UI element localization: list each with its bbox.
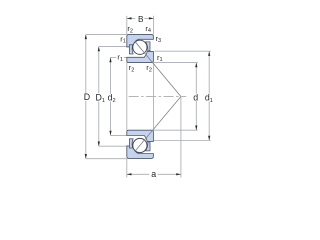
D bottom extension [86, 158, 127, 160]
d2 arrows [109, 58, 111, 63]
d1 arrows [208, 51, 210, 56]
a right extension (from apex) [180, 97, 182, 177]
d top extension [154, 62, 198, 64]
B dimension line [127, 17, 135, 19]
D top extension [86, 33, 127, 35]
svg-text:r2: r2 [127, 24, 133, 34]
svg-text:d2: d2 [108, 93, 116, 105]
face line right (bore cylinder edge) [153, 63, 155, 131]
B arrows [127, 17, 132, 19]
svg-text:r1: r1 [157, 53, 163, 63]
D1 arrows [98, 47, 100, 52]
svg-text:r3: r3 [156, 34, 162, 44]
d1 top extension [154, 50, 210, 52]
B extension left [126, 16, 128, 35]
svg-text:D1: D1 [96, 92, 105, 104]
D1 dimension line [98, 47, 100, 94]
svg-text:d1: d1 [205, 93, 213, 105]
a arrows [127, 173, 132, 175]
d2 top extension (broken by r1 label) [110, 57, 116, 59]
D1 top extension [99, 46, 127, 48]
D arrows [85, 34, 87, 39]
a dimension line [127, 173, 149, 175]
d1 bottom extension [154, 140, 211, 142]
D1 bottom extension [99, 145, 127, 147]
svg-text:d: d [193, 92, 198, 102]
D dimension line [85, 35, 87, 94]
svg-text:r2: r2 [146, 63, 152, 73]
svg-text:D: D [84, 92, 90, 102]
contact line lower (apex to lower ball) [135, 97, 181, 151]
d arrows [195, 63, 197, 68]
d1 dimension line [208, 51, 210, 93]
d dimension line [195, 63, 197, 94]
d2 dimension line [110, 58, 112, 94]
B extension right [153, 16, 155, 35]
svg-text:r1: r1 [120, 34, 126, 44]
svg-text:a: a [151, 169, 156, 179]
svg-text:r1: r1 [117, 52, 123, 62]
d2 bottom extension [110, 134, 127, 136]
a left extension (below bearing) [126, 158, 128, 177]
svg-text:r4: r4 [145, 24, 151, 34]
svg-text:B: B [138, 14, 144, 24]
contact line upper (through upper ball to apex) [135, 42, 181, 97]
svg-text:r2: r2 [129, 63, 135, 73]
d bottom extension [154, 129, 198, 131]
face line left (bore cylinder edge) [126, 63, 128, 131]
centerline (axis) [129, 95, 187, 97]
